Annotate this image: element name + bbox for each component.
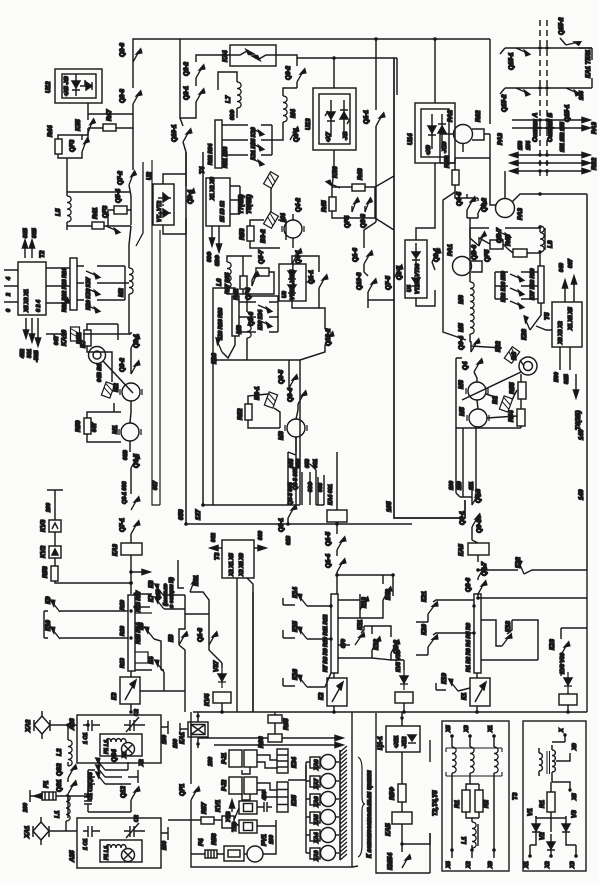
svg-text:Х4: Х4: [446, 861, 452, 869]
svg-text:К16: К16: [292, 669, 299, 680]
wire K7 to rail: [164, 608, 185, 610]
bus y712: [193, 711, 587, 713]
terminal 100 A26: [161, 721, 168, 734]
wire U12 to K45: [88, 103, 133, 120]
svg-text:140: 140: [578, 489, 585, 500]
svg-text:200: 200: [46, 503, 52, 513]
meter PJ2: [229, 777, 242, 794]
svg-text:100: 100: [173, 739, 179, 748]
wire R43 L8 loop: [470, 226, 540, 266]
svg-text:R48: R48: [357, 168, 364, 180]
lamp XA5: [310, 812, 320, 823]
terminal 100 KA1: [180, 723, 188, 735]
svg-text:Q15-1: Q15-1: [508, 52, 515, 70]
tacho B7: [89, 347, 106, 364]
lamp P A26: [122, 743, 135, 756]
svg-text:Х5: Х5: [446, 724, 452, 733]
svg-text:2: 2: [6, 293, 12, 297]
svg-text:К22: К22: [515, 557, 522, 568]
capacitor C2 var A26: [124, 717, 145, 732]
svg-text:F1 L1: F1 L1: [104, 846, 110, 860]
svg-text:X3 X4 X6: X3 X4 X6: [239, 552, 245, 577]
wire Q1-3 vertical: [185, 614, 222, 663]
machine M4 rotor: [282, 220, 304, 238]
svg-text:Q15-2: Q15-2: [558, 17, 565, 35]
contact K11: [355, 632, 365, 647]
arrow Y1B: [231, 802, 233, 812]
wire arrow right of junction: [131, 571, 148, 573]
svg-text:Х2: Х2: [545, 861, 551, 869]
switch Q1-1b: [319, 275, 328, 289]
rung K7: [135, 606, 150, 608]
svg-text:056: 056: [178, 509, 185, 520]
svg-text:ХА3: ХА3: [314, 851, 320, 863]
capacitor bank C1C2: [84, 790, 92, 812]
svg-text:R13: R13: [120, 658, 126, 668]
switch Q3-4: [298, 391, 307, 405]
switch Q1-5: [337, 537, 346, 551]
svg-text:F4: F4: [198, 838, 205, 846]
svg-text:Q8-3 005: Q8-3 005: [288, 482, 294, 505]
svg-text:M5: M5: [458, 323, 465, 332]
wire Q2-1 down left corner: [180, 39, 196, 118]
motor M6: [466, 382, 488, 400]
thyristor module U13 box: [313, 88, 356, 150]
voltmeter PV1: [247, 846, 263, 862]
wire M2coil: [125, 226, 131, 334]
switch Q6-1: [290, 127, 299, 141]
svg-text:100: 100: [162, 735, 168, 744]
svg-text:381: 381: [27, 349, 33, 358]
svg-text:M4: M4: [280, 213, 287, 222]
svg-text:R56: R56: [211, 833, 218, 845]
svg-text:-50Б: -50Б: [34, 350, 40, 362]
svg-text:Х2: Х2: [139, 759, 145, 767]
resistor R66: [268, 734, 282, 742]
wire KA10 row: [46, 333, 131, 335]
svg-text:Q3-2: Q3-2: [119, 358, 126, 372]
contact K39: [250, 157, 264, 166]
wire row 598: [478, 597, 587, 599]
svg-text:К4: К4: [148, 656, 155, 664]
switch Q4-4: [474, 359, 483, 373]
svg-text:К11: К11: [357, 619, 364, 630]
wire parallel 143: [136, 162, 143, 246]
wire QS2 chain: [67, 762, 69, 782]
switch Q2-6: [478, 581, 487, 595]
contact K25: [61, 298, 71, 312]
lamp XA7: [310, 776, 320, 787]
wire lamp column: [306, 762, 310, 853]
svg-text:Q7-5: Q7-5: [385, 276, 392, 290]
arrow line b: [214, 744, 340, 746]
switch Q4-3: [472, 492, 481, 506]
wire R41 QF3b to x131: [104, 210, 131, 226]
svg-text:M3: M3: [236, 325, 243, 334]
svg-text:Q10-1: Q10-1: [171, 124, 178, 142]
transformer T2 box: [18, 262, 46, 315]
svg-text:K31 K35 K39: K31 K35 K39: [251, 127, 257, 160]
svg-text:K29 K33 K37: K29 K33 K37: [86, 276, 92, 310]
terminal X4: [450, 848, 454, 852]
diode V36: [400, 670, 408, 690]
inductor L1 T2: [472, 822, 476, 848]
switch Q2-2: [196, 65, 205, 79]
contactor K1 box: [470, 678, 490, 706]
resistor R51: [84, 330, 91, 346]
thyristor b U13: [340, 112, 348, 119]
wire R51 loop: [87, 324, 131, 382]
svg-text:КА3: КА3: [112, 544, 119, 556]
svg-text:L7: L7: [225, 95, 232, 103]
resistor R55: [518, 382, 526, 399]
svg-text:в секции Б): в секции Б): [169, 577, 175, 608]
junction dots strip: [129, 592, 475, 640]
svg-text:Q10-2: Q10-2: [325, 328, 332, 346]
contact K29: [86, 270, 100, 279]
svg-text:KV4: KV4: [204, 693, 211, 706]
motor M5: [467, 409, 489, 427]
thyristor a U13: [327, 112, 335, 119]
wire T5 bottom stubs: [560, 347, 570, 370]
machine field M4 coil: [283, 96, 287, 122]
relay KV8: [559, 694, 577, 705]
fuse F4: [205, 850, 217, 858]
wire chain to Q3-1b: [130, 468, 132, 494]
switch Q15-1: [516, 47, 530, 56]
svg-text:R52: R52: [237, 408, 244, 420]
svg-text:К32: К32: [495, 341, 502, 352]
svg-text:К5: К5: [138, 622, 145, 630]
terminal X2: [470, 848, 474, 852]
svg-text:QF3: QF3: [69, 139, 76, 152]
svg-text:Q4: Q4: [462, 361, 469, 370]
transformer T3 box mid: [222, 540, 254, 578]
lamp XA3: [310, 848, 320, 859]
svg-text:К10: К10: [45, 620, 52, 631]
capacitor C2 var A25: [124, 823, 145, 838]
wire M1 down: [129, 441, 131, 452]
wire M4 bank rungs: [222, 125, 272, 155]
wire vert x237 x253: [252, 592, 254, 712]
wire Q10-2: [300, 308, 325, 360]
switch Q1-3: [209, 632, 218, 646]
wire K13 K42: [338, 575, 383, 618]
wire strip to K2: [333, 673, 335, 712]
svg-text:К20: К20: [421, 624, 428, 635]
relay KV4: [213, 692, 231, 703]
thyristor V in U12: [72, 81, 80, 88]
svg-text:К13: К13: [361, 597, 368, 608]
wire rungs T2 strip: [46, 266, 125, 303]
wire bypass 443: [443, 192, 466, 340]
svg-text:93Ф: 93Ф: [207, 251, 213, 262]
contact K18: [502, 633, 513, 648]
right strip R1-R6: [474, 594, 481, 673]
svg-text:U3: U3: [282, 291, 288, 298]
wire coils feed: [469, 232, 471, 342]
resistor R5F: [398, 784, 406, 802]
tap X5 T3: [552, 772, 570, 790]
breaker QF5: [490, 240, 503, 249]
wire R57 row: [168, 808, 239, 826]
tacho B6: [519, 357, 537, 375]
relay B3-1: [264, 392, 277, 408]
wire x131 chain: [130, 332, 132, 360]
svg-text:Х3: Х3: [464, 725, 470, 733]
coil F1L1 A26: [106, 739, 126, 742]
inductor L6: [227, 262, 231, 288]
svg-text:М5: М5: [459, 407, 466, 416]
svg-text:R27 R25: R27 R25: [225, 272, 231, 294]
resistor R58: [51, 566, 58, 581]
wire Q12 link: [122, 784, 131, 812]
switch Q10-1: [183, 129, 192, 143]
wire U14 top: [434, 39, 436, 103]
wire chain x133 down: [132, 128, 134, 170]
svg-text:Т5(4Б): Т5(4Б): [246, 194, 253, 214]
svg-text:127: 127: [195, 509, 202, 520]
svg-text:Q4-5: Q4-5: [133, 454, 140, 468]
coil F1L1 A25: [106, 845, 126, 848]
switch Q10-2: [325, 332, 334, 346]
svg-text:165: 165: [579, 90, 585, 100]
svg-text:R50: R50: [75, 420, 82, 432]
svg-text:К3: К3: [111, 692, 118, 700]
svg-text:К7: К7: [148, 594, 155, 602]
diode b U4: [412, 278, 420, 284]
svg-text:153: 153: [518, 141, 524, 150]
wire KA5 chain: [477, 555, 479, 598]
svg-text:Т5: Т5: [544, 312, 551, 320]
wire KA1 stubs: [197, 712, 199, 748]
switch Q1-4: [337, 559, 346, 573]
svg-text:К28 R26 R28: К28 R26 R28: [218, 308, 224, 340]
wire M3 down: [296, 410, 298, 452]
contact K14: [295, 593, 311, 606]
svg-text:X1 X2 X6: X1 X2 X6: [210, 176, 216, 201]
svg-text:940: 940: [559, 263, 565, 272]
svg-text:969: 969: [258, 531, 264, 540]
resistor R43: [513, 249, 527, 257]
ammeter PA2: [454, 125, 473, 144]
relay block K35: [277, 782, 288, 812]
wire F1 to QS1 junction: [56, 794, 68, 800]
wire R48: [440, 158, 490, 192]
relay KA10: [71, 327, 80, 341]
wire K14 K15 K16 rungs: [283, 605, 331, 687]
svg-text:037: 037: [153, 480, 159, 490]
contact KMB4: [402, 855, 411, 869]
svg-text:С2: С2: [134, 815, 140, 822]
svg-text:200: 200: [23, 803, 29, 813]
machine field M3 coil: [247, 312, 251, 338]
breaker QF1: [191, 787, 200, 801]
diode block U2: [153, 184, 174, 225]
wire Q4-1 down: [292, 262, 293, 301]
wire center row y360: [213, 359, 300, 361]
switch Q3-1: [131, 335, 140, 349]
svg-text:К2: К2: [318, 692, 325, 700]
relay coil KA5: [468, 543, 489, 555]
switch Q6-5: [467, 197, 476, 211]
svg-text:ХА6: ХА6: [314, 796, 320, 808]
svg-text:Q1-1: Q1-1: [363, 110, 370, 124]
svg-text:R4В: R4В: [444, 155, 451, 168]
svg-text:005: 005: [289, 458, 295, 468]
wire L7: [218, 72, 237, 118]
terminal bar KV chain: [47, 490, 63, 520]
switch Q10-3: [368, 279, 377, 293]
svg-text:РV1: РV1: [261, 834, 268, 846]
svg-text:+X9: +X9: [426, 145, 432, 155]
resistor bank R21-R24 strip: [70, 258, 77, 310]
switch Q3-2: [131, 361, 140, 375]
wire q2-6 to strip: [477, 593, 478, 595]
svg-text:15 13 12: 15 13 12: [220, 201, 226, 222]
svg-text:К14: К14: [292, 587, 299, 598]
contact K12: [372, 637, 381, 651]
svg-text:Q2-1: Q2-1: [183, 86, 190, 100]
contact K5: [142, 626, 158, 639]
wire U4 links: [416, 163, 435, 306]
contact K6: [179, 632, 188, 646]
svg-text:4: 4: [6, 277, 12, 281]
svg-text:QS4: QS4: [111, 749, 118, 762]
svg-text:Х: Х: [559, 728, 565, 733]
svg-text:070: 070: [341, 639, 347, 648]
svg-text:105: 105: [386, 501, 393, 512]
svg-text:04Т: 04Т: [92, 422, 98, 432]
switch Q15-2m: [516, 87, 530, 96]
svg-text:Q2-8: Q2-8: [119, 43, 126, 57]
diode b U3: [288, 285, 296, 291]
relay block K34: [277, 749, 288, 773]
svg-text:РJ1: РJ1: [221, 752, 228, 764]
svg-text:Q3-5: Q3-5: [278, 370, 285, 384]
svg-text:R62: R62: [475, 110, 482, 122]
wire windings down: [452, 773, 494, 848]
svg-text:Т3: Т3: [214, 552, 221, 560]
switch Q8-2: [297, 69, 306, 83]
svg-text:88Б: 88Б: [23, 228, 29, 238]
power supply box U1: [376, 713, 430, 873]
contact K20: [428, 634, 439, 649]
svg-text:К37 К38 R39: К37 К38 R39: [530, 268, 536, 300]
switch Q6-2: [478, 200, 487, 214]
svg-text:Q5-7: Q5-7: [258, 250, 265, 264]
contact QB-7: [497, 230, 511, 239]
svg-text:ХА1: ХА1: [24, 825, 31, 839]
svg-text:04Т: 04Т: [54, 335, 60, 345]
svg-text:Q4-1: Q4-1: [295, 250, 302, 264]
svg-text:К8: К8: [148, 580, 155, 588]
svg-text:X5 X3 X1: X5 X3 X1: [24, 289, 30, 313]
wire K11 K12 Q1-2: [338, 626, 391, 660]
svg-text:Q1-4: Q1-4: [325, 554, 332, 568]
svg-text:109: 109: [449, 481, 455, 490]
filter box A26: [77, 715, 161, 763]
inner box A26: [100, 734, 142, 756]
contact QF3b: [106, 225, 120, 234]
svg-text:400: 400: [262, 791, 268, 801]
thyristor unit U1-1: [386, 726, 420, 752]
fuse F1: [42, 792, 56, 800]
wire PA2 link: [440, 134, 490, 170]
meter T1B box b: [239, 820, 257, 833]
wire T4 pins right: [230, 186, 240, 214]
svg-text:РА2: РА2: [447, 110, 454, 122]
pin X1: [493, 736, 495, 747]
wire KV8 link: [567, 692, 569, 712]
resistor R53: [247, 226, 254, 241]
rail K9: [44, 610, 128, 612]
capacitor C1 A26: [83, 720, 100, 731]
svg-text:Х1: Х1: [122, 751, 128, 759]
svg-text:Х5: Х5: [572, 792, 578, 801]
resistor R1 T2: [462, 790, 470, 812]
svg-text:Q8-2: Q8-2: [285, 66, 292, 80]
switch Q2-5: [394, 265, 403, 279]
contact K42b: [383, 587, 392, 601]
switch Q6-4: [471, 339, 480, 353]
contact K32b: [510, 273, 524, 282]
svg-text:К6: К6: [168, 634, 175, 642]
svg-text:R45: R45: [321, 200, 328, 212]
wire XA2 to A26: [50, 725, 77, 740]
contact K7: [152, 596, 168, 609]
svg-text:Секция А: Секция А: [532, 112, 539, 142]
svg-text:Q12: Q12: [120, 786, 127, 798]
svg-text:9ВФ: 9ВФ: [215, 254, 221, 266]
switch Q9-1b: [432, 249, 441, 263]
RS2 link wires: [512, 155, 588, 171]
transformer box T3: [523, 721, 586, 871]
svg-text:К30 К34: К30 К34: [258, 310, 264, 330]
wire R1 T3: [550, 782, 552, 832]
winding a T3: [539, 753, 542, 771]
svg-text:Т7(4Б): Т7(4Б): [238, 194, 245, 214]
transformer T4 box: [206, 178, 230, 226]
arrow T3 left: [212, 547, 222, 549]
svg-text:К21: К21: [421, 591, 428, 602]
diode a U3: [288, 271, 296, 277]
svg-text:R1: R1: [539, 799, 546, 808]
svg-text:Q2-4: Q2-4: [187, 190, 194, 204]
transformer T5 box: [552, 302, 582, 347]
wire R53 loop: [250, 220, 286, 248]
wire U3 links: [292, 256, 319, 308]
switch Q1-2: [391, 640, 400, 654]
section divider dashed B: [546, 20, 548, 178]
contact K34: [258, 319, 272, 328]
wire K6 vertical: [179, 614, 185, 663]
svg-text:К42: К42: [385, 589, 392, 600]
svg-text:М2: М2: [113, 383, 120, 392]
svg-text:081: 081: [313, 459, 319, 468]
svg-text:08Ф: 08Ф: [308, 481, 314, 492]
svg-text:04В В1: 04В В1: [97, 364, 103, 382]
svg-text:897: 897: [568, 258, 574, 268]
arrow T4 out a: [211, 226, 213, 244]
capacitor 400: [257, 802, 272, 812]
contact Q12: [131, 787, 140, 801]
wire top main bus: [133, 39, 490, 62]
svg-text:Х3: Х3: [570, 861, 576, 869]
wire strip to K3: [130, 671, 132, 712]
thyristor b U14: [438, 126, 446, 133]
svg-text:V3: V3: [571, 810, 578, 818]
